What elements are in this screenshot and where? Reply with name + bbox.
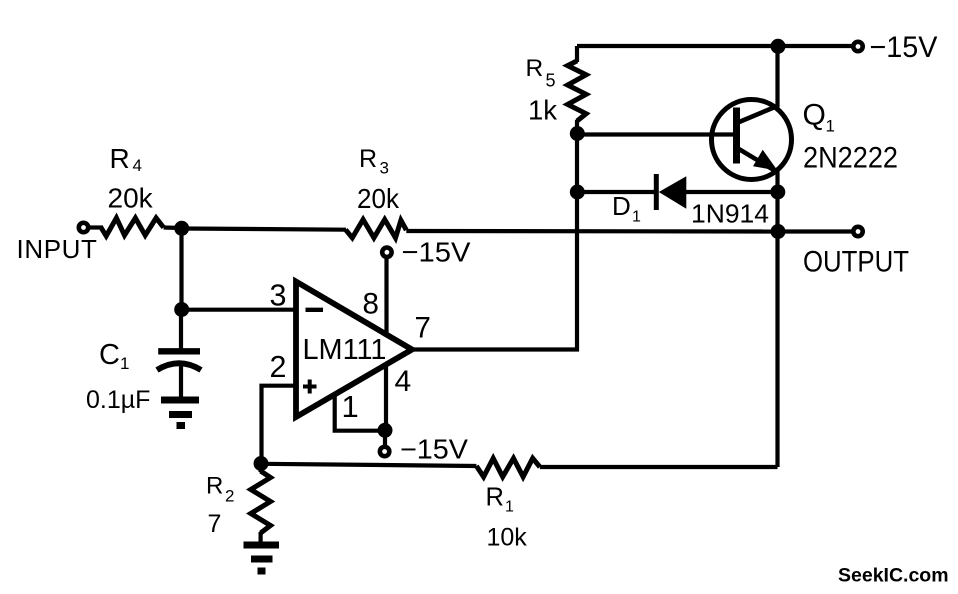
svg-text:3: 3 — [270, 278, 287, 312]
svg-text:R: R — [486, 484, 504, 512]
svg-text:5: 5 — [546, 71, 556, 91]
svg-text:10k: 10k — [487, 524, 528, 552]
capacitor C1 top plate — [158, 348, 200, 354]
wire R3 to output node (crosses x=577 without junction) — [406, 229, 778, 234]
node G junction (output) — [771, 224, 786, 239]
supply terminal -15V (top) — [853, 42, 862, 51]
node F junction (diode right / emitter) — [770, 185, 785, 200]
svg-text:C: C — [99, 339, 120, 371]
svg-text:2N2222: 2N2222 — [803, 142, 898, 175]
wire R4 to node A — [164, 225, 182, 230]
svg-text:20k: 20k — [108, 183, 154, 214]
svg-text:3: 3 — [380, 159, 389, 178]
stub junction to -15V terminal — [383, 430, 387, 445]
node H junction (pin 2 / R2) — [254, 456, 269, 471]
node D junction (diode left) — [570, 185, 585, 200]
svg-text:1: 1 — [632, 209, 641, 226]
wire node B to op-amp pin 3 — [182, 308, 294, 312]
wire lower feedback row (pin2/R2 to R1) — [262, 464, 477, 466]
svg-text:R: R — [359, 145, 377, 173]
diode D1 cathode bar — [654, 174, 659, 210]
output terminal — [853, 227, 862, 236]
minus sign (inverting input) — [306, 308, 324, 312]
svg-text:4: 4 — [395, 365, 412, 398]
svg-text:1: 1 — [120, 354, 129, 373]
wire R2 to ground — [259, 532, 263, 543]
svg-text:INPUT: INPUT — [17, 234, 98, 264]
svg-text:0.1µF: 0.1µF — [86, 386, 150, 414]
plus sign (non-inverting input) — [303, 385, 317, 389]
svg-text:2: 2 — [225, 487, 234, 506]
ground (R2) — [244, 545, 280, 571]
transistor Q1 collector line — [738, 106, 779, 123]
wire op-amp pin 2 — [262, 386, 294, 464]
wire node A down to node B — [179, 228, 183, 310]
wire C1 to ground — [179, 366, 183, 399]
wire emitter down through nodes to R1 corner — [775, 171, 779, 467]
wire node B down to C1 — [179, 310, 183, 350]
svg-text:−15V: −15V — [402, 237, 471, 268]
input terminal — [79, 223, 88, 232]
node pins 1-4 junction — [378, 423, 393, 438]
transistor Q1 circle — [712, 100, 792, 180]
wire pin 1 down and right — [335, 395, 384, 431]
resistor R1 — [476, 458, 540, 477]
node A junction — [174, 221, 189, 236]
wire R5 bottom stub — [575, 120, 579, 135]
svg-text:8: 8 — [363, 287, 379, 320]
supply terminal -15V (below R3) — [382, 248, 391, 257]
node E junction (top, collector) — [771, 39, 786, 54]
svg-text:7: 7 — [415, 311, 431, 344]
wire collector to top node — [775, 46, 779, 107]
transistor Q1 emitter line — [738, 149, 778, 173]
top supply wire — [577, 44, 852, 48]
svg-text:D: D — [612, 191, 631, 221]
svg-text:1: 1 — [826, 117, 835, 136]
transistor Q1 base bar — [733, 108, 740, 164]
wire node H to R2 — [259, 464, 263, 473]
transistor Q1 emitter arrow — [753, 150, 778, 171]
resistor R4 — [101, 218, 164, 236]
wire diode row left — [577, 190, 655, 194]
svg-text:Q: Q — [803, 99, 826, 132]
svg-text:4: 4 — [133, 156, 142, 175]
svg-text:−15V: −15V — [870, 31, 938, 64]
svg-text:1: 1 — [342, 389, 359, 424]
svg-text:20k: 20k — [357, 183, 400, 214]
wire R5 top stub — [575, 46, 579, 62]
supply terminal -15V (pins 1,4) — [380, 447, 389, 456]
capacitor C1 bottom plate (curved) — [157, 363, 201, 370]
ground (C1) — [161, 400, 199, 426]
svg-text:R: R — [526, 55, 544, 82]
wire Q1 base — [577, 132, 734, 136]
svg-text:R: R — [110, 143, 130, 174]
svg-text:−15V: −15V — [400, 434, 469, 465]
svg-text:1: 1 — [505, 499, 514, 516]
wire -15V terminal to pin 8 — [384, 259, 388, 335]
wire diode row right — [684, 190, 778, 194]
op-amp U1 LM111 triangle — [296, 282, 412, 418]
svg-text:2: 2 — [270, 350, 287, 384]
node C junction (R5 bottom / Q1 base) — [570, 126, 585, 141]
node B junction — [174, 302, 189, 317]
wire op-amp output pin 7 to node C column — [412, 135, 577, 350]
wire output node to terminal — [778, 229, 852, 233]
svg-text:1k: 1k — [528, 95, 557, 126]
wire node A to R3 — [182, 229, 346, 230]
wire R1 to output column — [540, 465, 778, 469]
wire pin 4 down — [384, 365, 388, 431]
svg-text:1N914: 1N914 — [691, 199, 769, 229]
svg-text:SeekIC.com: SeekIC.com — [838, 565, 949, 587]
resistor R3 — [346, 220, 407, 238]
svg-text:7: 7 — [208, 510, 222, 538]
svg-text:LM111: LM111 — [303, 334, 387, 366]
svg-text:OUTPUT: OUTPUT — [803, 246, 909, 279]
svg-text:R: R — [206, 473, 223, 500]
resistor R2 — [251, 471, 271, 533]
wire input terminal to R4 — [89, 225, 103, 229]
resistor R5 — [568, 61, 587, 121]
diode D1 triangle — [659, 176, 687, 209]
